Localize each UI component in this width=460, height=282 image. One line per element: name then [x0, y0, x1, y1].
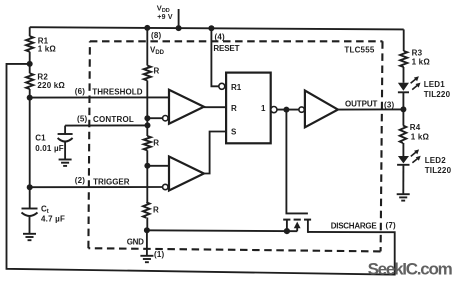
- wire CONTROL (pin 5): [65, 124, 147, 126]
- svg-text:R: R: [153, 206, 159, 215]
- svg-text:LED1: LED1: [424, 80, 446, 89]
- svg-text:SeekIC.com: SeekIC.com: [368, 259, 453, 278]
- svg-text:(8): (8): [151, 31, 162, 40]
- resistor R lower (internal divider): [143, 202, 150, 218]
- svg-text:R: R: [153, 139, 159, 148]
- svg-text:(6): (6): [75, 87, 86, 96]
- ground under C1: [59, 159, 72, 161]
- pin bubble R1 input: [219, 83, 225, 89]
- svg-text:1 kΩ: 1 kΩ: [38, 45, 57, 54]
- svg-text:TLC555: TLC555: [344, 46, 374, 55]
- wire GND pin 1: [146, 230, 148, 256]
- svg-text:TIL220: TIL220: [424, 90, 451, 99]
- top supply rail: [30, 27, 404, 29]
- svg-text:0.01 µF: 0.01 µF: [35, 144, 64, 153]
- svg-text:VDD: VDD: [150, 46, 165, 57]
- node gate tap junction: [283, 107, 289, 113]
- svg-text:R3: R3: [412, 49, 423, 58]
- MOSFET body arrow: [294, 222, 301, 229]
- svg-text:1 kΩ: 1 kΩ: [411, 133, 430, 142]
- wire upper comparator out to FF R input: [204, 106, 226, 108]
- ground symbol pin 1: [140, 255, 153, 257]
- MOSFET drain lead: [308, 220, 309, 232]
- svg-text:R4: R4: [410, 123, 421, 132]
- node threshold junction: [27, 95, 33, 101]
- resistor R upper (internal divider): [144, 66, 151, 81]
- node control junction: [145, 122, 151, 128]
- node divider tap to comparator minus: [144, 115, 150, 121]
- MOSFET source lead: [286, 220, 288, 232]
- svg-text:1: 1: [261, 104, 266, 113]
- LED1 TIL220: [398, 83, 409, 91]
- node divider tap to lower comparator plus: [144, 163, 150, 169]
- svg-text:DISCHARGE: DISCHARGE: [331, 222, 378, 231]
- wire divider upper segment: [146, 81, 148, 137]
- node output junction: [400, 106, 406, 112]
- capacitor C1 0.01uF on CONTROL: [64, 126, 66, 134]
- svg-text:(2): (2): [75, 176, 86, 185]
- wire FF output to buffer: [277, 109, 299, 111]
- wire divider middle segment: [146, 150, 148, 202]
- wire lower comparator out to FF S input: [204, 132, 226, 174]
- LED1 emission arrows: [411, 79, 418, 90]
- ground under Ct: [23, 233, 36, 235]
- svg-text:(1): (1): [154, 250, 165, 259]
- pin bubble buffer input: [299, 107, 304, 112]
- svg-text:R1: R1: [231, 83, 242, 92]
- wire LED2 to ground: [402, 165, 404, 194]
- svg-text:GND: GND: [127, 237, 144, 246]
- svg-text:TRIGGER: TRIGGER: [93, 177, 130, 186]
- svg-text:C1: C1: [35, 133, 46, 142]
- wire THRESHOLD (pin 6): [30, 96, 169, 98]
- resistor R3 1k: [403, 29, 405, 51]
- op-amp output buffer: [305, 91, 338, 128]
- op-amp comparator lower (trigger): [169, 157, 204, 191]
- pin bubble FF output: [271, 107, 277, 113]
- node trigger junction: [27, 184, 33, 190]
- wire divider lower segment to GND node: [146, 218, 148, 231]
- svg-text:(7): (7): [386, 221, 397, 230]
- resistor R2 220k: [29, 64, 31, 73]
- LED2 emission arrows: [411, 152, 418, 163]
- LED2 TIL220: [398, 156, 409, 163]
- svg-text:OUTPUT: OUTPUT: [345, 100, 378, 109]
- wire LED1 to output node: [402, 92, 404, 109]
- MOSFET channel segments: [283, 219, 290, 221]
- svg-text:(4): (4): [215, 32, 226, 41]
- svg-text:R: R: [154, 67, 160, 76]
- svg-text:CONTROL: CONTROL: [93, 115, 134, 124]
- node supply junction: [176, 25, 182, 31]
- node J1 R1/R2 junction: [27, 61, 33, 67]
- wire threshold node down to trigger node: [29, 98, 31, 188]
- svg-text:220 kΩ: 220 kΩ: [37, 81, 65, 90]
- svg-text:1 kΩ: 1 kΩ: [412, 58, 431, 67]
- svg-text:R: R: [231, 104, 237, 113]
- IC boundary dashed box TLC555: [88, 41, 382, 251]
- flip-flop U1 box: [226, 73, 271, 144]
- wire pin 8 VDD: [146, 28, 148, 66]
- wire pin 4 RESET: [208, 25, 214, 31]
- transistor Q1 discharge MOSFET: gate wire: [286, 110, 308, 214]
- capacitor Ct 4.7uF on trigger node: [29, 187, 31, 208]
- svg-text:(5): (5): [77, 114, 88, 123]
- svg-text:LED2: LED2: [425, 156, 447, 165]
- resistor R4 1k: [402, 109, 404, 125]
- svg-text:S: S: [231, 127, 237, 136]
- svg-text:TIL220: TIL220: [425, 166, 452, 175]
- wire J1 to discharge loop: left edge, bottom rail, right riser: [7, 64, 395, 275]
- svg-text:THRESHOLD: THRESHOLD: [92, 88, 142, 97]
- node GND junction: [144, 227, 150, 233]
- wire VDD supply stub: [178, 9, 180, 28]
- svg-text:RESET: RESET: [213, 44, 239, 53]
- wire TRIGGER (pin 2): [30, 186, 163, 188]
- svg-text:VDD: VDD: [157, 4, 170, 15]
- svg-text:4.7 µF: 4.7 µF: [41, 214, 65, 223]
- op-amp comparator upper (threshold): [169, 90, 204, 124]
- svg-text:(3): (3): [384, 100, 395, 109]
- wire internal GND line to MOSFET source: [147, 229, 297, 232]
- resistor R1 1k: [29, 27, 31, 36]
- svg-text:+9 V: +9 V: [157, 14, 173, 21]
- resistor R middle (internal divider): [144, 136, 151, 150]
- node source/gnd junction: [284, 228, 290, 234]
- ground under LED2: [397, 193, 410, 195]
- wire OUTPUT (pin 3): [338, 108, 404, 110]
